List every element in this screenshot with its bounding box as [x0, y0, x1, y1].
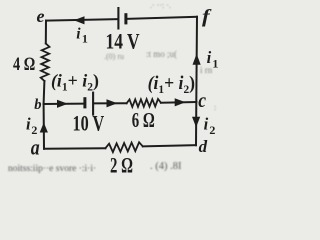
svg-text:noitss:iip··e svore ·:i·i·: noitss:iip··e svore ·:i·i· — [8, 164, 96, 174]
wire middle: b to 10V battery — [44, 103, 84, 105]
resistor 2-ohm zigzag — [105, 142, 142, 152]
wire top-left e to 14V battery — [46, 19, 117, 20]
svg-text::: : — [214, 103, 216, 112]
svg-text:4 Ω: 4 Ω — [13, 53, 35, 74]
wire right side: f down to node c — [195, 17, 198, 102]
svg-text:b: b — [34, 97, 41, 113]
svg-text:.(0) ru: .(0) ru — [104, 52, 124, 61]
svg-text:2 Ω: 2 Ω — [110, 154, 133, 175]
arrow (i1+i2) after b (points right) — [57, 100, 68, 108]
svg-text:10 V: 10 V — [73, 112, 105, 136]
svg-text::t mo ;u(: :t mo ;u( — [146, 49, 177, 59]
arrow (i1+i2) after 10V (points right) — [107, 99, 118, 107]
arrow i2 left side (points up) — [40, 123, 48, 133]
paper background — [0, 0, 224, 175]
battery 10V short plate — [83, 97, 86, 108]
battery 10V long plate — [92, 92, 94, 116]
wire middle: 10V battery to 6-ohm — [94, 102, 127, 104]
svg-text:i rn: i rn — [200, 65, 213, 75]
svg-text:6 Ω: 6 Ω — [132, 109, 155, 132]
wire left side: 4-ohm down to node b — [43, 81, 46, 104]
arrow i2 right side (points down) — [192, 117, 200, 127]
battery 14V short plate — [124, 13, 127, 24]
arrow i1 right side (points up) — [193, 54, 201, 65]
svg-text:a: a — [31, 136, 40, 160]
wire left side: node b down to corner a — [43, 104, 45, 149]
svg-text:d: d — [199, 137, 208, 156]
wire middle: 6-ohm to node c — [161, 101, 196, 104]
svg-text:.· ··: ·.: .· ··: ·. — [150, 1, 171, 10]
battery 14V long plate — [117, 7, 119, 30]
svg-text:c: c — [198, 88, 206, 112]
wire right side: node c down to corner d — [195, 102, 197, 145]
faint print-through marks (decorative) — [8, 1, 216, 174]
svg-text:e: e — [37, 6, 45, 26]
arrow (i1+i2) before c (points right) — [175, 98, 186, 106]
svg-text:14 V: 14 V — [106, 29, 141, 54]
wire bottom: a to 2-ohm — [44, 147, 105, 150]
resistor R 4-ohm zigzag — [41, 44, 50, 82]
resistor 6-ohm zigzag — [127, 99, 161, 107]
wire 14V battery to f corner — [127, 17, 197, 19]
arrow i1 top (points left) — [74, 16, 85, 24]
wire bottom: 2-ohm to corner d — [143, 145, 196, 146]
svg-text:. (4) .8I: . (4) .8I — [150, 161, 182, 172]
wire left side: e down to 4-ohm — [45, 21, 47, 44]
